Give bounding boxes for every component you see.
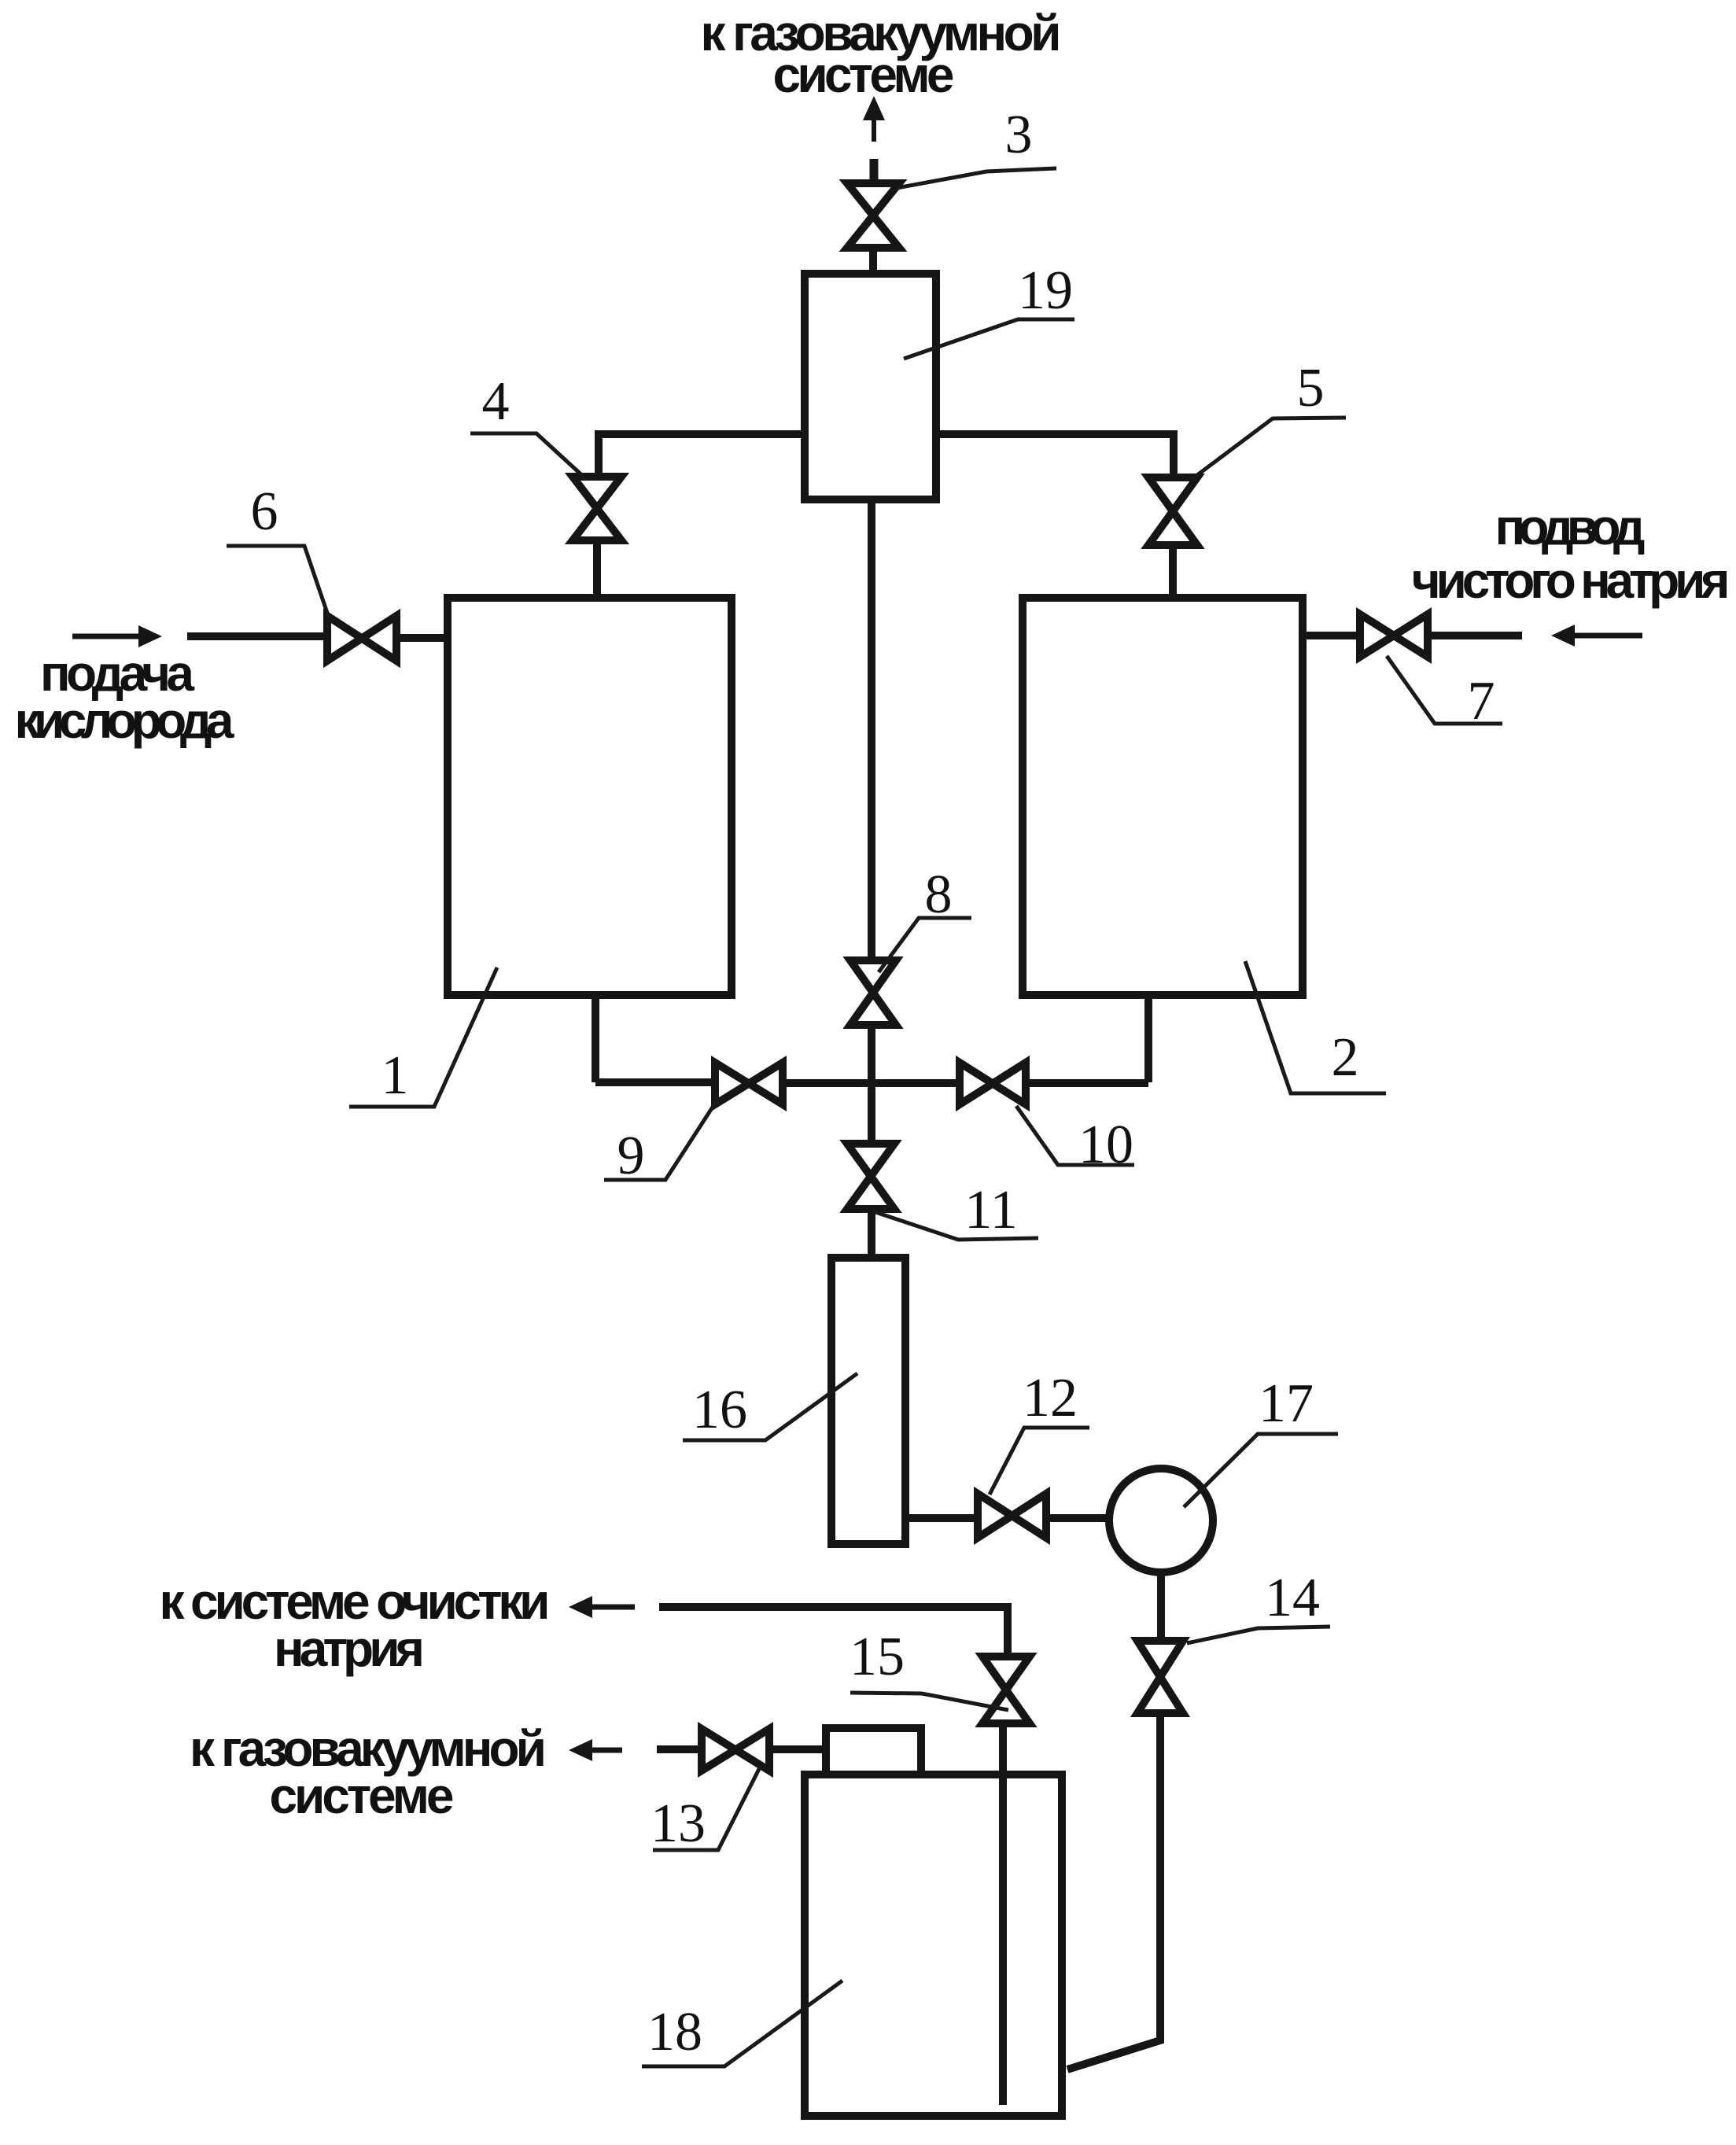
leader 9 xyxy=(604,1097,719,1180)
svg-text:16: 16 xyxy=(692,1380,747,1440)
svg-text:1: 1 xyxy=(381,1045,409,1106)
wire cross rail left xyxy=(595,1078,715,1086)
leader 17 xyxy=(1184,1434,1338,1507)
svg-text:9: 9 xyxy=(617,1126,645,1186)
svg-text:4: 4 xyxy=(482,371,510,432)
tank 18 xyxy=(805,1775,1062,2116)
leader 18 xyxy=(642,1981,842,2066)
wire valve5 to tank2 xyxy=(1169,545,1177,599)
svg-text:12: 12 xyxy=(1023,1368,1078,1428)
valve 4 xyxy=(573,477,621,540)
svg-text:подвод: подвод xyxy=(1495,499,1646,555)
vessel 16 xyxy=(831,1258,905,1544)
wire cross rail right xyxy=(1026,1079,1148,1087)
wire valve6 to tank1 xyxy=(396,634,448,642)
leader 19 xyxy=(904,319,1074,359)
valve 10 xyxy=(960,1063,1026,1104)
wire vent arrow shaft xyxy=(872,112,876,142)
wire box16 outlet xyxy=(905,1514,978,1522)
valve 12 xyxy=(978,1494,1046,1538)
leader 4 xyxy=(470,433,585,478)
wire valve3 to box19 xyxy=(869,248,877,274)
leader 8 xyxy=(879,918,971,972)
valve 14 xyxy=(1137,1641,1183,1713)
wire oxygen inlet xyxy=(187,632,326,640)
svg-text:15: 15 xyxy=(850,1627,905,1687)
wire valve13 to tank18 xyxy=(769,1745,826,1753)
oxygen arrow shaft xyxy=(72,634,142,639)
leader 15 xyxy=(850,1693,1008,1710)
leader 1 xyxy=(349,967,497,1107)
valve 11 xyxy=(847,1144,894,1209)
tank18 neck xyxy=(826,1728,921,1775)
gasvac arrow shaft xyxy=(591,1748,622,1753)
leader 10 xyxy=(1016,1106,1134,1165)
wire gas-vacuum line xyxy=(657,1745,702,1753)
leader 6 xyxy=(227,546,329,617)
wire cross rail center xyxy=(783,1079,960,1087)
sodium arrow shaft xyxy=(1573,633,1642,639)
wire tank1 drop xyxy=(592,995,599,1082)
leader 5 xyxy=(1191,418,1346,480)
svg-text:5: 5 xyxy=(1297,358,1325,418)
wire purification line xyxy=(659,1607,1008,1657)
leader 14 xyxy=(1187,1627,1330,1643)
pump 17 xyxy=(1109,1469,1213,1572)
svg-text:системе: системе xyxy=(773,46,955,103)
svg-text:системе: системе xyxy=(270,1767,455,1824)
vessel 19 xyxy=(805,274,936,499)
svg-text:натрия: натрия xyxy=(274,1620,425,1677)
gasvac arrowhead xyxy=(569,1739,592,1761)
wire valve12 to pump xyxy=(1046,1514,1111,1522)
tank 2 xyxy=(1023,598,1303,995)
svg-text:чистого натрия: чистого натрия xyxy=(1412,552,1730,609)
wire pump drop xyxy=(1157,1572,1165,1641)
valve 5 xyxy=(1148,477,1197,545)
valve 7 xyxy=(1360,614,1428,657)
valve 6 xyxy=(327,616,396,661)
purification arrowhead xyxy=(569,1596,592,1618)
svg-text:19: 19 xyxy=(1018,260,1073,321)
wire left rail xyxy=(599,434,805,476)
tank 1 xyxy=(448,598,732,995)
wire right rail xyxy=(936,434,1174,477)
svg-text:6: 6 xyxy=(251,481,278,542)
leader 12 xyxy=(990,1428,1089,1494)
wire center line middle xyxy=(868,1025,875,1144)
svg-text:2: 2 xyxy=(1332,1027,1359,1088)
wire center line lower xyxy=(868,1209,875,1258)
valve 15 xyxy=(982,1657,1030,1723)
leader 2 xyxy=(1245,961,1386,1093)
svg-text:18: 18 xyxy=(647,2002,702,2062)
wire tank2 drop xyxy=(1144,995,1152,1082)
leader 7 xyxy=(1387,656,1502,724)
purification arrow shaft xyxy=(591,1605,635,1610)
svg-text:7: 7 xyxy=(1468,671,1495,732)
wire center line upper xyxy=(868,499,875,960)
valve 3 xyxy=(847,183,899,248)
svg-text:8: 8 xyxy=(925,864,953,925)
svg-text:кислорода: кислорода xyxy=(15,692,234,749)
vent arrowhead xyxy=(863,96,885,120)
valve 8 xyxy=(850,960,896,1025)
svg-text:10: 10 xyxy=(1078,1115,1133,1175)
svg-text:14: 14 xyxy=(1265,1568,1320,1628)
leader 11 xyxy=(873,1211,1038,1240)
leader 13 xyxy=(653,1766,761,1850)
oxygen arrowhead xyxy=(138,625,162,647)
wire valve4 to tank1 xyxy=(593,540,601,599)
wire vent dash xyxy=(870,159,879,179)
sodium arrowhead xyxy=(1551,625,1575,647)
svg-text:13: 13 xyxy=(651,1793,706,1854)
wire sodium inlet xyxy=(1428,632,1522,639)
svg-text:11: 11 xyxy=(964,1180,1017,1240)
wire tank2 to valve7 xyxy=(1303,632,1360,639)
svg-text:17: 17 xyxy=(1259,1373,1314,1434)
valve 13 xyxy=(702,1729,769,1771)
svg-text:3: 3 xyxy=(1005,105,1033,165)
valve 9 xyxy=(715,1063,783,1104)
wire valve14 to tank18 xyxy=(1067,1713,1160,2069)
leader 3 xyxy=(897,168,1056,188)
leader 16 xyxy=(683,1373,857,1440)
wire dip tube xyxy=(999,1723,1007,2105)
